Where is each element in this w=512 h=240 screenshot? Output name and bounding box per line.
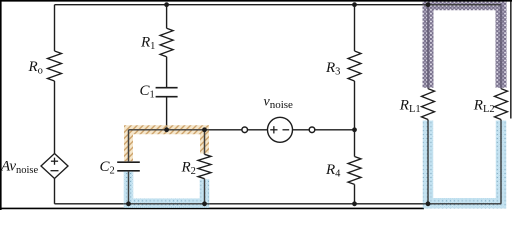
terminal right of vnoise <box>309 127 315 133</box>
wire left branch lower (source to bottom rail) <box>54 179 56 204</box>
border frame top (drawn over purple band) <box>0 0 512 2</box>
wire R3 to middle node <box>354 81 356 130</box>
wire bottom rail (segment inside left blue band) <box>124 203 209 205</box>
wire R2 bottom lead <box>204 179 206 204</box>
wire top rail (segment inside purple band) <box>423 4 502 6</box>
wire R3 top lead <box>354 5 356 51</box>
resistor R1 <box>140 28 173 56</box>
wire R4 bottom lead <box>354 184 356 203</box>
node R2 at bottom rail <box>202 201 207 206</box>
capacitor C2 <box>100 159 140 177</box>
wire RL1 bottom lead (inside blue band) <box>427 120 429 204</box>
wire bottom rail (segment inside right blue band) <box>423 203 502 205</box>
wire C2 top lead (inside tan band) <box>128 130 130 162</box>
dependent source Avnoise (diamond) <box>0 154 68 179</box>
wire R1 to C1 <box>166 57 168 88</box>
highlight path: load loop top (RL1-RL2), purple weave <box>428 5 501 88</box>
wire C2 bottom lead (inside blue band) <box>128 171 130 204</box>
node C2 at bottom rail <box>126 201 131 206</box>
wire middle horizontal (segment inside tan band) <box>129 129 210 131</box>
wire terminal to vnoise source <box>248 129 268 131</box>
wire RL2 top lead (inside purple band) <box>500 5 502 89</box>
border frame right (upper part only) <box>510 0 512 119</box>
highlight path: noise loop top (C2-R2), tan hatch <box>129 130 205 161</box>
wire middle horizontal (C2 corner to vnoise terminal) <box>129 129 243 131</box>
wire RL1 top lead (inside purple band) <box>427 5 429 89</box>
node at top of RL1 branch <box>426 2 431 7</box>
capacitor C1 <box>140 83 178 101</box>
wire C1 to middle node <box>166 97 168 130</box>
highlight path: load loop bottom (RL1-RL2), blue dots <box>428 121 501 204</box>
wire R2 bottom lead (inside blue band) <box>204 179 206 204</box>
wire R4 top lead <box>354 130 356 157</box>
wire RL1 top lead <box>427 5 429 89</box>
wire RL1 bottom lead <box>427 120 429 204</box>
wire top rail <box>55 4 502 6</box>
node at top of R3 branch <box>352 2 357 7</box>
source vnoise <box>264 94 294 142</box>
node RL1 at bottom rail <box>426 201 431 206</box>
resistor RL1 <box>399 89 435 120</box>
resistor R3 <box>325 51 361 81</box>
node middle at R3/R4 branch <box>352 127 357 132</box>
node middle at R2 branch <box>202 127 207 132</box>
wire C2 bottom lead <box>128 171 130 204</box>
wire vnoise source to right terminal <box>293 129 310 131</box>
wire right terminal to R3/R4 node <box>315 129 355 131</box>
wire C2 top lead <box>128 130 130 162</box>
resistor R4 <box>325 157 361 185</box>
wire R2 top lead (inside tan band) <box>204 130 206 155</box>
resistor Ro <box>28 51 62 81</box>
wire R1 top lead <box>166 5 168 29</box>
wire bottom rail <box>55 203 502 205</box>
wire R2 top lead <box>204 130 206 155</box>
wire RL2 bottom lead (inside blue band) <box>500 120 502 204</box>
border frame bottom (ends at blue band) <box>0 207 424 209</box>
highlight path: noise loop bottom (C2-R2), blue dots <box>129 172 205 204</box>
node at top of R1 branch <box>164 2 169 7</box>
terminal left of vnoise <box>242 127 248 133</box>
resistor RL2 <box>473 89 508 120</box>
resistor R2 <box>181 154 212 178</box>
wire left branch upper (top rail to Ro) <box>54 5 56 51</box>
wire RL2 bottom lead <box>500 120 502 204</box>
node middle at R1/C1 branch <box>164 127 169 132</box>
border frame left <box>0 0 2 210</box>
wire RL2 top lead <box>500 5 502 89</box>
node R4 at bottom rail <box>352 201 357 206</box>
wire left branch middle (Ro to source) <box>54 81 56 154</box>
